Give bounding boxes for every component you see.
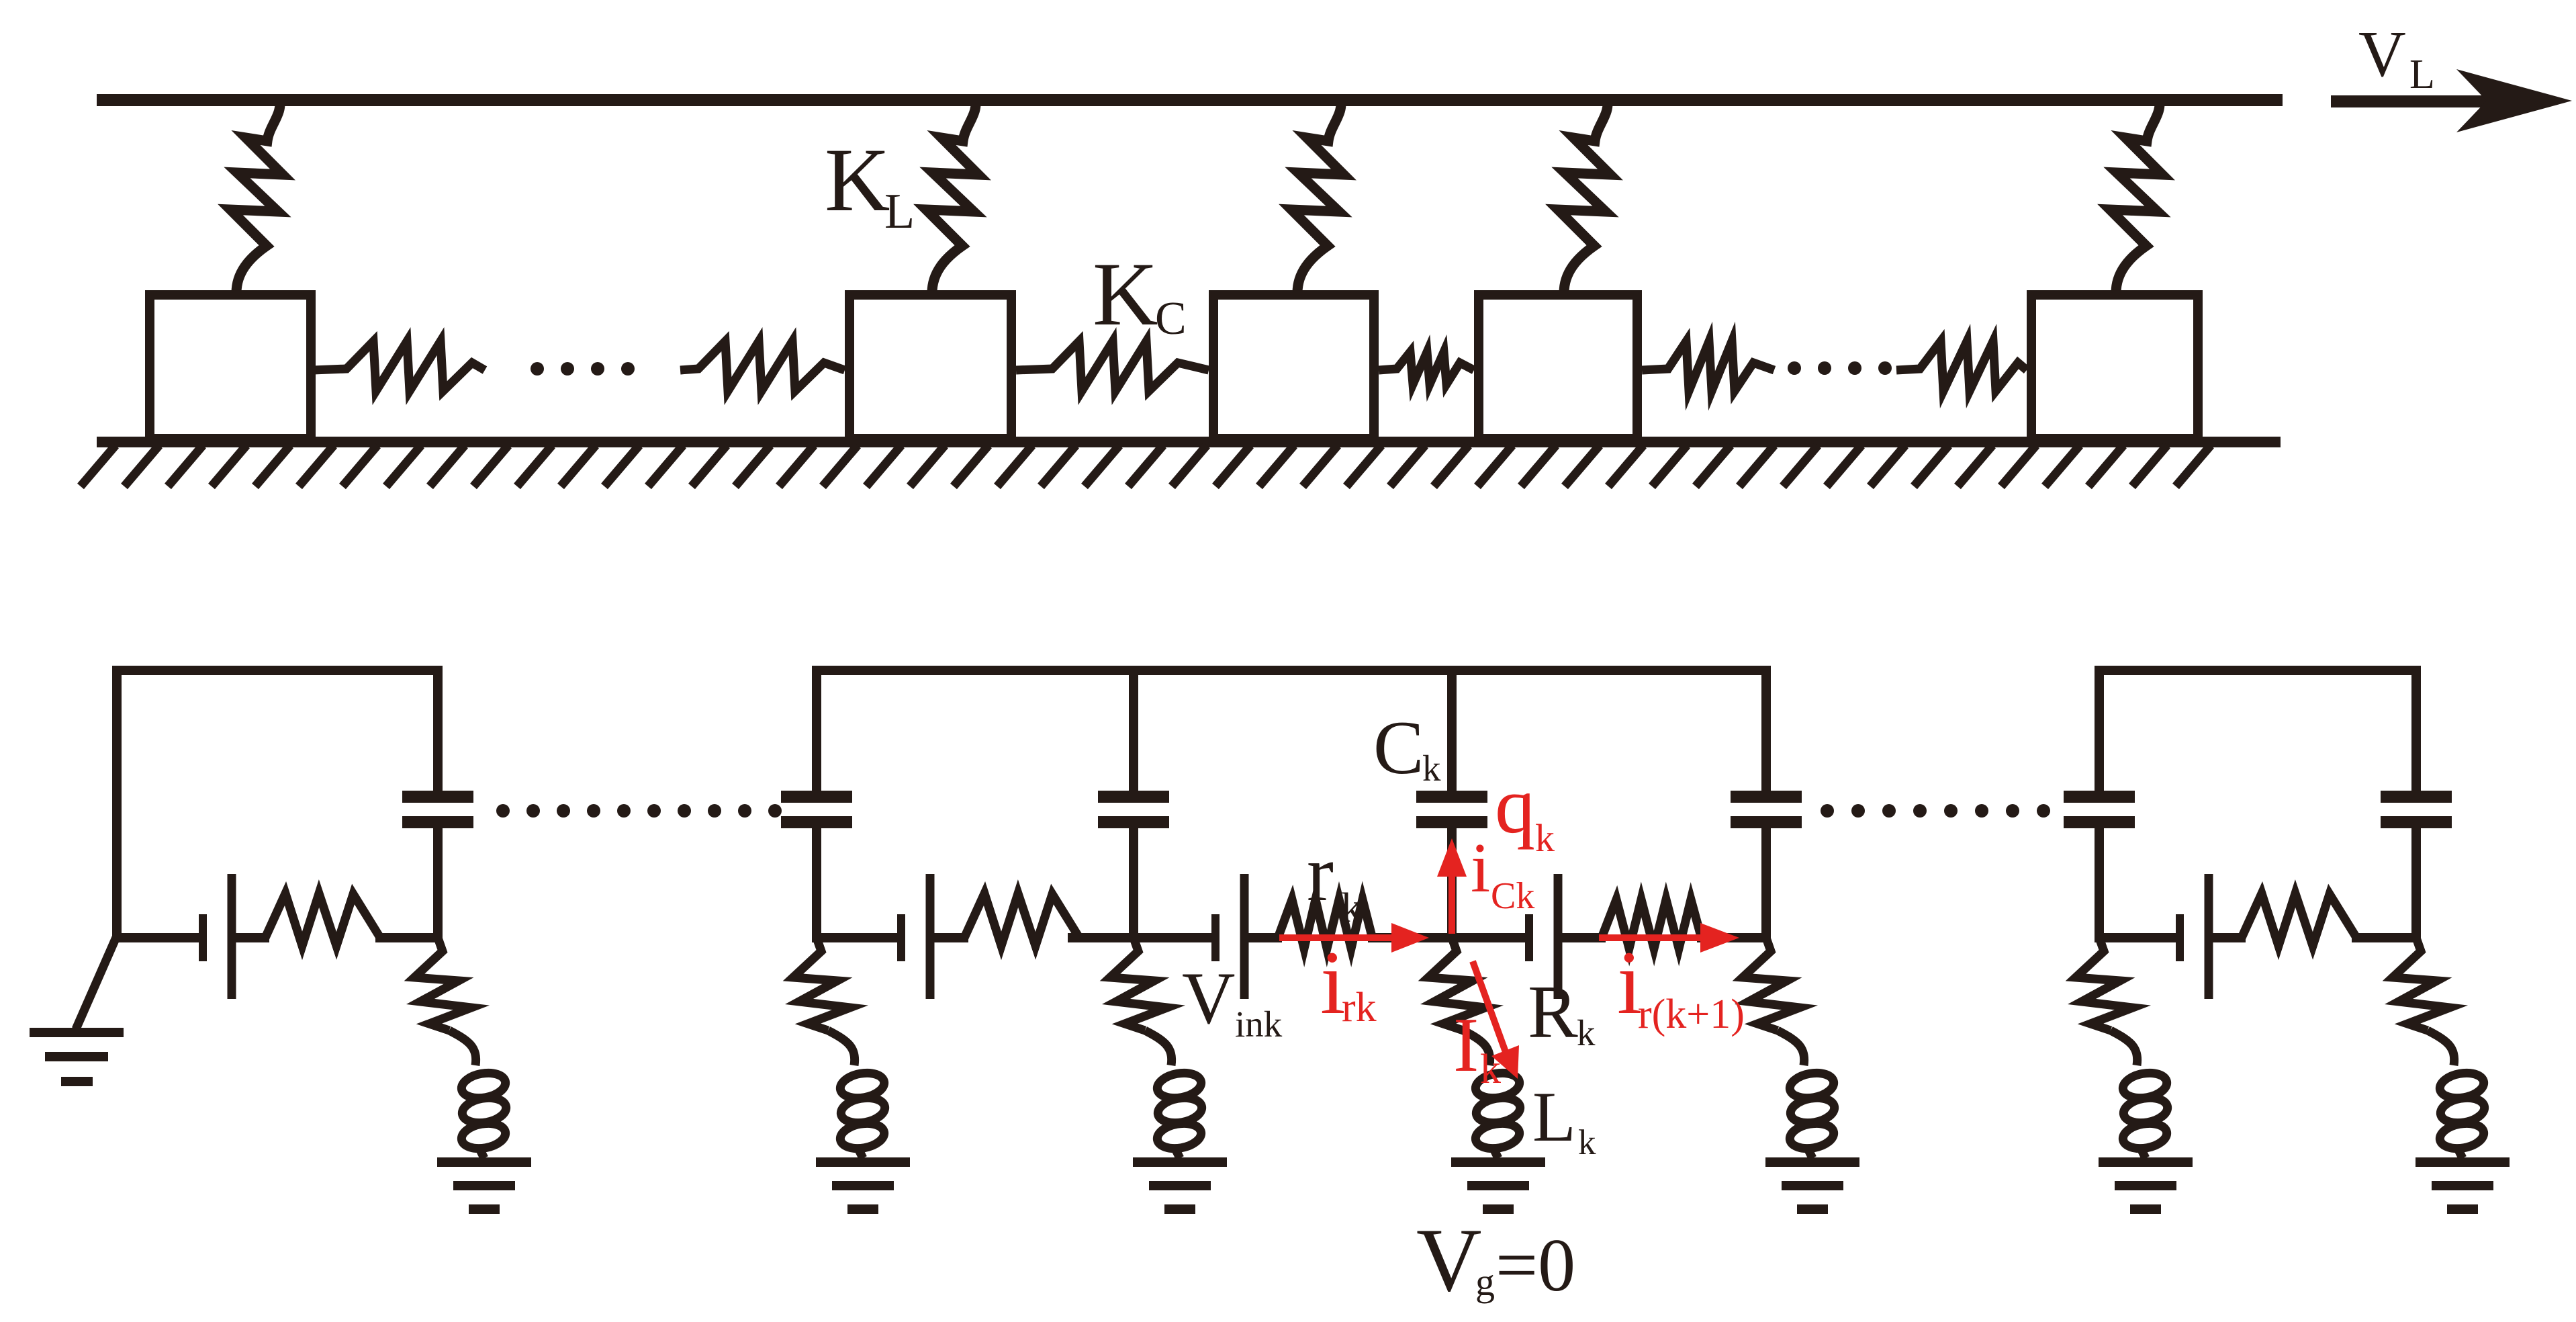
arrow VL [2331,95,2493,107]
svg-text:L: L [1532,1077,1576,1156]
wire node segment 8 [1247,933,1282,942]
resistor R7 (vertical zigzag) [2393,938,2450,1030]
capacitor C3 [1129,666,1138,792]
mass block m1 [150,295,311,439]
svg-text:R: R [1528,971,1578,1054]
ground G7 [2416,1157,2510,1167]
wire node segment 10 [1448,933,1533,942]
mass block m5 [2031,295,2198,439]
ground G1 [437,1157,531,1167]
svg-text:C: C [1373,706,1424,790]
ground surface line [97,437,2281,447]
svg-text:C: C [1155,293,1187,345]
ground (input, left) [30,1028,124,1037]
current arrow irk [1279,934,1397,941]
svg-text:q: q [1495,760,1535,850]
ground G5 [1765,1157,1859,1167]
wire node segment 7 [1130,933,1220,942]
svg-text:V: V [1416,1210,1482,1311]
svg-text:Ck: Ck [1491,875,1534,917]
battery Vink [1211,914,1220,961]
svg-text:=0: =0 [1496,1224,1575,1307]
inductor L1 (coil) [449,1030,476,1065]
wire node segment 13 [2095,933,2184,942]
resistor Rk (vertical zigzag) [1428,938,1485,1030]
svg-text:I: I [1453,1002,1479,1088]
ground hatching [81,445,2211,486]
ground Gk [1451,1157,1545,1167]
resistor R1 (vertical zigzag) [414,938,471,1030]
current arrow Ik [1473,961,1506,1052]
current arrow ir(k+1) [1599,934,1706,941]
dots circuit row 2 [1821,804,2050,818]
inductor Lk (coil) [1463,1030,1490,1065]
battery Vin6 [2176,914,2184,961]
wire node segment 11 [1558,933,1606,942]
spring KL5 (leaf spring to slider) [2110,97,2162,293]
wire left vertical (input node) [112,666,122,942]
capacitor C7 [2411,666,2421,792]
ground G3 [1133,1157,1227,1167]
capacitor C1 [433,666,443,792]
svg-text:K: K [825,130,890,230]
spring KL2 (leaf spring to slider) [926,97,978,293]
spring KC c (labelled KC, between m2 and m3) [1016,341,1209,391]
inductor L7 (coil) [2428,1030,2454,1065]
capacitor C6 [2095,666,2104,792]
inductor L5 (coil) [1778,1030,1804,1065]
wire node segment 3 [375,933,442,942]
mass block m2 [849,295,1011,439]
resistor r(k+1) [1602,899,1701,949]
mass block m3 [1213,295,1374,439]
top slider plate (moving line) [97,94,2283,106]
wire diagonal to ground [76,936,117,1029]
svg-text:V: V [1182,957,1235,1039]
svg-text:L: L [884,184,915,239]
wire node segment 1 [117,933,207,942]
capacitor C5 [1761,666,1771,792]
svg-text:r(k+1): r(k+1) [1638,991,1745,1037]
resistor R5 (vertical zigzag) [1743,938,1800,1030]
inductor L3 (coil) [1145,1030,1172,1065]
resistor r1 [265,893,379,946]
svg-text:k: k [1577,1012,1596,1053]
inductor L2 (coil) [828,1030,855,1065]
svg-text:L: L [2409,52,2435,97]
spring KC d (compressed, between m3 and m4) [1379,352,1474,384]
spring KC f (left of block m5) [1896,341,2027,391]
svg-text:k: k [1422,748,1441,789]
wire node segment 12 [1697,933,1770,942]
battery Vin2 [897,914,905,961]
spring KL1 (leaf spring to slider) [230,97,283,293]
resistor R3 (vertical zigzag) [1110,938,1167,1030]
dots circuit row 1 [496,804,782,818]
inductor L6 (coil) [2111,1030,2137,1065]
capacitor C2 [812,666,821,792]
svg-text:g: g [1475,1260,1495,1304]
current arrow iCk [1448,873,1455,934]
wire top rail segment 1 [112,666,443,675]
resistor rk [1278,899,1372,949]
mass block m4 [1479,295,1637,439]
ground G2 [816,1157,910,1167]
spring KC e (right of block m4) [1642,341,1774,391]
wire node segment 14 [2212,933,2246,942]
battery Vin(k+1) [1525,914,1533,961]
spring KL4 (leaf spring to slider) [1558,97,1610,293]
svg-text:K: K [1093,245,1158,345]
svg-text:V: V [2358,18,2406,91]
resistor r2 [964,893,1078,946]
spring KC a (right of block m1) [313,341,485,391]
ground G6 [2099,1157,2193,1167]
wire node segment 9 [1368,933,1456,942]
svg-text:k: k [1578,1123,1596,1162]
wire top rail segment 2 [812,666,1771,675]
svg-text:r: r [1307,828,1334,918]
svg-text:rk: rk [1342,985,1377,1030]
spring KC b (left of block m2) [680,341,845,391]
resistor r6 [2242,893,2356,946]
wire top rail segment 3 [2095,666,2421,675]
wire node segment 5 [933,933,968,942]
wire node segment 4 [813,933,905,942]
capacitor Ck [1447,666,1457,792]
dots mechanical row 2 [1788,361,1892,375]
resistor R6 (vertical zigzag) [2076,938,2133,1030]
svg-text:k: k [1341,885,1362,931]
svg-text:i: i [1471,828,1490,907]
svg-text:k: k [1480,1047,1501,1092]
resistor R2 (vertical zigzag) [793,938,850,1030]
wire node segment 15 [2352,933,2420,942]
svg-text:k: k [1535,816,1555,860]
wire node segment 2 [232,933,269,942]
svg-text:ink: ink [1235,1004,1283,1045]
battery Vin1 [199,914,207,961]
dots mechanical row 1 [531,362,635,376]
wire node segment 6 [1068,933,1138,942]
spring KL3 (leaf spring to slider) [1291,97,1344,293]
